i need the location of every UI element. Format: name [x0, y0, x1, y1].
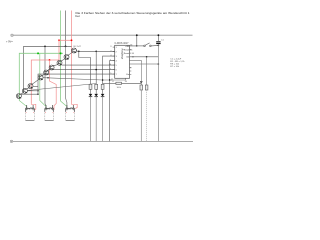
node junction [44, 46, 46, 48]
svg-text:bei: bei [76, 14, 80, 18]
wire sloped emitter run 1 [44, 78, 113, 80]
node green junction [60, 53, 62, 55]
svg-text:Die 3 Farben Stehen der 3-vers: Die 3 Farben Stehen der 3-verschiedenen … [76, 11, 190, 15]
node green junction [37, 53, 39, 55]
coil K1 [26, 105, 35, 120]
svg-text:Reset: Reset [124, 52, 130, 55]
transistor Q2 [22, 88, 27, 93]
wire pin13 corner down [130, 61, 142, 62]
node junction [95, 69, 97, 71]
svg-text:Clk: Clk [126, 57, 129, 59]
node junction [47, 77, 48, 78]
node junction [37, 94, 38, 95]
node junction top bus C1 [158, 34, 160, 36]
svg-text:Reset: Reset [124, 49, 130, 52]
node junction [78, 51, 80, 53]
resistor R11 [145, 57, 148, 142]
wire red into coil1 right terminal [31, 103, 36, 110]
svg-text:8: 8 [113, 81, 114, 83]
wire red short vertical [58, 40, 60, 60]
node red junction [58, 39, 60, 41]
diode D9 arrow [140, 81, 143, 84]
IC pin numbers right and bottom [113, 44, 134, 83]
wire red horizontal link [59, 39, 72, 41]
resistor R1 [89, 84, 92, 89]
IC pin numbers left [109, 46, 111, 75]
LED D2 [94, 89, 98, 141]
transistor Q9 [72, 48, 77, 53]
node junction [146, 56, 148, 58]
wire green L bus [19, 53, 63, 100]
wire sloped emitter run 2 [27, 84, 96, 91]
svg-text:3: 3 [110, 46, 111, 48]
wire staircase to column1 [79, 51, 91, 84]
svg-text:BC 547: BC 547 [74, 46, 82, 48]
svg-text:100k: 100k [117, 87, 121, 89]
IC right pin stubs [130, 50, 132, 75]
wire +UB pin16 to top bus [130, 35, 137, 46]
transistor Q3 [28, 84, 33, 89]
wire red L bus [31, 60, 59, 103]
transistor Q1 [16, 94, 21, 99]
wire column2 from junction [95, 51, 97, 84]
wire gray into coil3 left terminal [66, 46, 67, 110]
node junction [95, 51, 97, 53]
node junction switch C1 [158, 45, 160, 47]
node junction [65, 46, 67, 48]
svg-text:+ 9V=: + 9V= [6, 40, 13, 43]
wire gray L bus [24, 46, 72, 92]
node 0V terminal [10, 140, 12, 142]
wire Q3 base [33, 85, 39, 87]
wire top supply bus [13, 34, 192, 36]
wire red branch coil3 [72, 102, 78, 109]
svg-text:7: 7 [110, 59, 111, 61]
wire bottom ground bus [13, 140, 193, 142]
LED D1 [89, 89, 93, 141]
wire pin14 to resistors [130, 56, 159, 58]
svg-text:C-MOS 4017: C-MOS 4017 [115, 42, 130, 45]
wire pin5 to Q7 base [60, 63, 115, 65]
wire gray vertical from top [65, 11, 67, 47]
wire chain connectors [21, 50, 78, 95]
coil K3 [66, 105, 75, 120]
node junction top bus [136, 34, 138, 36]
wire red vertical from top [71, 11, 73, 103]
wire green branch to coil2 [40, 53, 46, 110]
transistor Q5 [44, 70, 49, 75]
IC pin numbers inner left [116, 47, 117, 76]
wire Q2 base [27, 90, 38, 92]
capacitor C1 [156, 35, 160, 141]
svg-text:2: 2 [110, 50, 111, 52]
LED D3 [101, 89, 105, 141]
wire green vertical from top [60, 11, 62, 102]
wire pin4 to ground column [110, 61, 115, 142]
transistor Q8 [64, 55, 69, 60]
svg-text:2: 2 [116, 51, 117, 53]
node +9V terminal [11, 34, 13, 36]
svg-text:3: 3 [116, 56, 117, 58]
transistor Q6 [49, 65, 54, 70]
wire pin6 long [46, 70, 115, 73]
node junction [109, 79, 110, 80]
svg-text:13: 13 [125, 81, 127, 83]
wire red branch coil2 [50, 60, 57, 110]
svg-text:R7 = 10k: R7 = 10k [170, 66, 180, 68]
IC pin stubs left [113, 47, 115, 74]
transistor Q4 [38, 75, 43, 80]
svg-text:En: En [127, 74, 129, 76]
resistor R9 horizontal [103, 82, 142, 84]
node junction [37, 90, 38, 91]
wire pin3 to LED column 3 [103, 56, 115, 84]
wire green diagonal into coil1 [19, 101, 26, 111]
label component values [170, 58, 185, 68]
wire gray branch down to coil 2 [45, 46, 46, 106]
svg-text:14: 14 [132, 53, 134, 55]
resistor R10 [140, 61, 143, 142]
svg-text:4: 4 [110, 55, 111, 57]
IC U1 CD4017 [115, 45, 130, 78]
svg-text:5: 5 [116, 65, 117, 67]
IC pin labels right [124, 46, 130, 76]
node junction row1 [136, 45, 137, 46]
node red junction [49, 59, 51, 61]
wire pin7 to Q-base ladder [21, 74, 115, 94]
node red junction [71, 39, 73, 41]
svg-text:1: 1 [116, 47, 117, 49]
wire IC bottom pin to ground [110, 79, 126, 81]
wire pin2 run to Q9 [77, 50, 115, 52]
node junction [158, 63, 160, 65]
IC bottom pin stubs [112, 78, 126, 80]
svg-text:5: 5 [110, 73, 111, 75]
transistor Q7 [57, 60, 62, 65]
svg-text:1: 1 [110, 68, 111, 70]
svg-text:+UB: +UB [125, 46, 130, 48]
svg-text:6: 6 [116, 69, 117, 71]
coil K2 [45, 105, 54, 120]
svg-text:4: 4 [116, 60, 117, 62]
switch S1 reset [137, 43, 159, 47]
node junction column3 [102, 79, 104, 81]
svg-text:10: 10 [109, 64, 111, 66]
resistor R2 [95, 84, 98, 89]
wire pin lower to C1 node [130, 63, 159, 65]
svg-text:7: 7 [116, 74, 117, 76]
resistor R3 [101, 84, 104, 89]
